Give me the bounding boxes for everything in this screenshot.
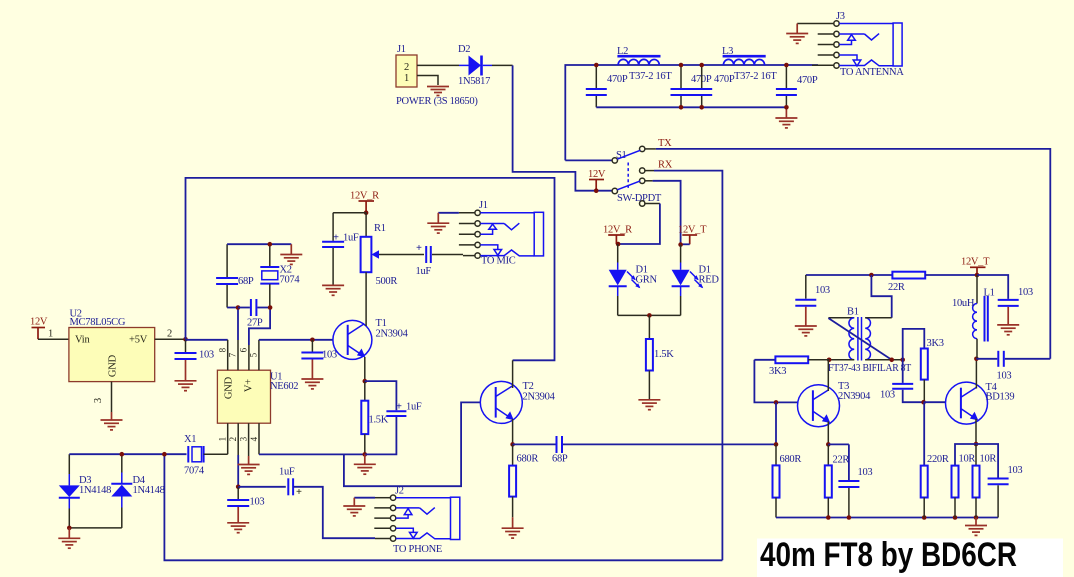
transistor T4 BD139 bbox=[946, 382, 1015, 424]
transistor T2 2N3904 bbox=[480, 381, 555, 423]
led D1 RED bbox=[672, 245, 720, 316]
U1 pin 6 bbox=[248, 345, 250, 370]
wire 12V route down to switch bbox=[513, 65, 612, 190]
wire 12V_T to decoupling cap bbox=[977, 275, 1008, 299]
svg-text:+: + bbox=[416, 243, 422, 254]
svg-text:12V_R: 12V_R bbox=[350, 191, 379, 202]
svg-text:TO MIC: TO MIC bbox=[481, 256, 516, 267]
capacitor 103 at pin2 bbox=[227, 487, 264, 523]
capacitor 103 output series bbox=[976, 351, 1050, 382]
wire mic pin1 to ground bbox=[438, 212, 459, 214]
diode D3 1N4148 bbox=[59, 454, 111, 528]
svg-text:103: 103 bbox=[880, 390, 895, 401]
svg-text:68P: 68P bbox=[238, 276, 254, 287]
resistor 3K3 (T3 bias) bbox=[754, 356, 829, 377]
power port 12V_T at L1 bbox=[961, 257, 990, 276]
resistor 10R #1 bbox=[952, 444, 977, 518]
wire pin4 to emitter node bbox=[259, 453, 365, 455]
U1 pin 8 bbox=[227, 340, 229, 370]
svg-text:1N5817: 1N5817 bbox=[458, 76, 490, 87]
diode D2 1N5817 bbox=[458, 44, 490, 87]
wire J1 pin1 to ground bbox=[417, 76, 438, 86]
svg-text:7074: 7074 bbox=[280, 275, 301, 286]
ground at J3 bbox=[786, 34, 808, 44]
svg-text:J2: J2 bbox=[395, 486, 404, 497]
connector J2 (TO PHONE) bbox=[374, 486, 460, 556]
ground 103 T3 supply bbox=[795, 326, 817, 336]
svg-text:2: 2 bbox=[167, 329, 172, 340]
power port 12V at U2 bbox=[30, 317, 48, 340]
U1 pin 5 bbox=[258, 340, 260, 370]
svg-text:470P: 470P bbox=[714, 74, 735, 85]
svg-text:6: 6 bbox=[239, 347, 249, 352]
ground J2 bbox=[343, 506, 365, 516]
wire 3K3 to T3 base bbox=[754, 360, 797, 403]
resistor 22R (T3 emitter) bbox=[825, 444, 850, 517]
svg-text:680R: 680R bbox=[780, 454, 802, 465]
capacitor 1uF (T1 emitter) bbox=[365, 381, 422, 454]
svg-text:1uF: 1uF bbox=[343, 233, 359, 244]
inductor L2 bbox=[617, 56, 660, 65]
wire T2 emitter down bbox=[512, 419, 514, 444]
power port 12V at switch bbox=[588, 169, 606, 191]
svg-text:12V_T: 12V_T bbox=[678, 225, 707, 236]
connector J3 (TO ANTENNA) bbox=[797, 11, 904, 78]
capacitor 103 at U2 output bbox=[175, 339, 214, 380]
resistor 10R #2 bbox=[973, 444, 997, 518]
svg-text:10uH: 10uH bbox=[952, 298, 975, 309]
svg-text:3: 3 bbox=[93, 398, 104, 403]
svg-text:+: + bbox=[396, 402, 402, 413]
capacitor 470P #3 bbox=[691, 65, 712, 107]
svg-text:68P: 68P bbox=[552, 454, 568, 465]
wire T3 collector to B1 bbox=[827, 360, 829, 391]
svg-text:3: 3 bbox=[238, 436, 248, 441]
svg-text:+: + bbox=[296, 487, 302, 498]
wire 68P/X2 top rail to ground bbox=[227, 243, 291, 245]
transistor T3 2N3904 bbox=[798, 381, 872, 427]
svg-text:GND: GND bbox=[224, 376, 235, 399]
wire D2 to corner bbox=[483, 64, 492, 66]
wire bottom long rail bbox=[164, 454, 722, 560]
wire 220R feed bbox=[923, 402, 925, 465]
wire J2 pin1 to ground bbox=[354, 497, 375, 499]
wire base feed from 68P node bbox=[775, 402, 777, 444]
svg-text:R1: R1 bbox=[374, 223, 386, 234]
wire T4 emitter bbox=[975, 419, 977, 444]
svg-text:12V: 12V bbox=[588, 169, 606, 180]
svg-text:103: 103 bbox=[322, 350, 337, 361]
title white box bbox=[757, 539, 1063, 577]
capacitor 103 (12V_T decoupling) bbox=[998, 287, 1033, 324]
inductor L3 bbox=[723, 56, 766, 65]
wire 12V_T supply rail bbox=[806, 274, 893, 276]
svg-text:FT37-43 BIFILAR 8T: FT37-43 BIFILAR 8T bbox=[828, 363, 912, 374]
resistor 1.5K (led) bbox=[646, 315, 674, 399]
U1 pin 7 bbox=[237, 340, 239, 370]
svg-text:12V_R: 12V_R bbox=[603, 225, 632, 236]
svg-text:5: 5 bbox=[249, 352, 259, 357]
junction dots filter bbox=[594, 63, 599, 68]
capacitor 103 (B1 output) bbox=[880, 360, 924, 402]
junction 12V/switch bbox=[594, 188, 599, 193]
U1 pin 4 bbox=[258, 423, 260, 454]
diode D4 1N4148 bbox=[111, 454, 164, 528]
svg-text:T1: T1 bbox=[376, 318, 387, 329]
svg-text:1uF: 1uF bbox=[416, 266, 432, 277]
wire bottom rail right bbox=[776, 517, 998, 519]
wire led cathode rail bbox=[618, 314, 681, 316]
crystal X2 7074 bbox=[260, 244, 300, 307]
svg-text:POWER (3S 18650): POWER (3S 18650) bbox=[396, 96, 478, 107]
svg-text:GND: GND bbox=[108, 354, 119, 377]
svg-text:T2: T2 bbox=[523, 381, 534, 392]
svg-text:3K3: 3K3 bbox=[927, 338, 944, 349]
ground 103 12V_T bbox=[997, 325, 1019, 335]
svg-text:MC78L05CG: MC78L05CG bbox=[70, 317, 126, 328]
svg-text:T37-2 16T: T37-2 16T bbox=[734, 71, 777, 82]
wire antenna top rail bbox=[565, 65, 818, 160]
capacitor 68P output bbox=[513, 436, 776, 465]
svg-text:7074: 7074 bbox=[184, 466, 205, 477]
wire filter bottom rail bbox=[596, 106, 786, 108]
crystal X1 7074 bbox=[184, 434, 228, 477]
svg-text:4: 4 bbox=[249, 436, 259, 441]
inductor L1 10uH bbox=[952, 275, 995, 359]
svg-text:GRN: GRN bbox=[636, 275, 658, 286]
ground 1uF 12V_R bbox=[322, 285, 344, 295]
svg-text:220R: 220R bbox=[927, 454, 949, 465]
wire RX down to bottom rail bbox=[654, 171, 722, 561]
capacitor 1uF at 12V_R bbox=[322, 213, 366, 285]
capacitor 470P #4 bbox=[776, 65, 797, 107]
svg-text:12V: 12V bbox=[30, 317, 48, 328]
wire 68P bottom to pin7 node bbox=[227, 307, 238, 309]
svg-text:BD139: BD139 bbox=[986, 392, 1015, 403]
svg-text:+: + bbox=[333, 233, 339, 244]
svg-text:2: 2 bbox=[228, 437, 238, 441]
svg-text:103: 103 bbox=[858, 467, 873, 478]
wire T2 base path bbox=[344, 402, 480, 486]
ground D3/D4 bbox=[58, 528, 80, 548]
ground U2 pin3 bbox=[101, 420, 123, 430]
transistor T1 2N3904 bbox=[333, 318, 409, 359]
svg-text:V+: V+ bbox=[244, 379, 255, 392]
wire T3 emitter bbox=[827, 422, 829, 445]
wire T4 base bbox=[924, 401, 946, 403]
connector J1 (POWER) bbox=[396, 44, 478, 107]
power port 12V_T at leds bbox=[678, 225, 707, 245]
svg-text:8: 8 bbox=[218, 347, 228, 352]
ground mic bbox=[427, 223, 449, 233]
svg-text:1uF: 1uF bbox=[406, 402, 422, 413]
svg-text:L1: L1 bbox=[984, 288, 995, 299]
wire 1uF to J2 pin5 bbox=[293, 487, 375, 538]
svg-text:TO PHONE: TO PHONE bbox=[393, 544, 442, 555]
capacitor 470P #1 bbox=[586, 65, 607, 107]
wire U2 pin3 to ground bbox=[111, 382, 113, 412]
svg-text:103: 103 bbox=[199, 350, 214, 361]
svg-text:X1: X1 bbox=[184, 434, 196, 445]
svg-text:22R: 22R bbox=[888, 282, 905, 293]
svg-text:500R: 500R bbox=[376, 276, 398, 287]
svg-text:2N3904: 2N3904 bbox=[523, 392, 556, 403]
wire D3/D4 top rail bbox=[69, 453, 186, 455]
svg-text:RX: RX bbox=[658, 160, 673, 171]
capacitor 103 (T3 emitter) bbox=[828, 444, 872, 517]
svg-text:B1: B1 bbox=[847, 307, 859, 318]
svg-text:27P: 27P bbox=[247, 318, 263, 329]
svg-text:1.5K: 1.5K bbox=[654, 349, 674, 360]
svg-text:1N4148: 1N4148 bbox=[133, 485, 165, 496]
ground filter bbox=[775, 107, 797, 128]
wire J1 pin2 to D2 bbox=[417, 64, 459, 66]
capacitor 103 at pin5 bbox=[301, 340, 337, 379]
resistor 22R (supply) bbox=[888, 272, 977, 293]
wire switch contact3 to 12V_T node bbox=[645, 180, 653, 182]
ground 103 U2 bbox=[175, 381, 197, 391]
regulator U2 MC78L05CG bbox=[69, 309, 155, 382]
svg-text:40m FT8 by BD6CR: 40m FT8 by BD6CR bbox=[760, 536, 1017, 574]
svg-text:L2: L2 bbox=[617, 46, 628, 57]
svg-text:1: 1 bbox=[218, 437, 228, 441]
svg-text:T37-2 16T: T37-2 16T bbox=[629, 71, 672, 82]
capacitor 1uF mic coupling bbox=[416, 243, 464, 277]
ground output rail bbox=[965, 518, 987, 536]
ground 680R T2 bbox=[502, 517, 524, 538]
power port 12V_R at leds bbox=[603, 225, 632, 245]
wire switch contact4 to 12V_R node bbox=[645, 203, 660, 205]
wire D3/D4 bottom bbox=[69, 527, 122, 529]
svg-text:22R: 22R bbox=[833, 455, 850, 466]
wire filter to switch common bbox=[565, 159, 612, 161]
svg-text:RED: RED bbox=[699, 275, 720, 286]
capacitor 1uF coupling (pin2) bbox=[238, 467, 302, 499]
ground led resistor bbox=[638, 400, 660, 410]
svg-text:10R: 10R bbox=[959, 454, 976, 465]
ground 103 pin2 bbox=[227, 523, 249, 533]
svg-text:10R: 10R bbox=[980, 454, 997, 465]
svg-text:L3: L3 bbox=[722, 46, 733, 57]
svg-text:103: 103 bbox=[1018, 287, 1033, 298]
svg-text:1: 1 bbox=[404, 73, 409, 84]
svg-text:1N4148: 1N4148 bbox=[79, 485, 111, 496]
svg-text:2: 2 bbox=[404, 62, 409, 73]
wire 12V to U2 pin1 bbox=[38, 338, 69, 340]
wire R1 bottom to T1 collector bbox=[365, 272, 367, 326]
U1 pin 1 to X1 bbox=[227, 423, 229, 454]
svg-text:1: 1 bbox=[48, 329, 53, 340]
svg-text:+5V: +5V bbox=[129, 335, 148, 346]
svg-text:470P: 470P bbox=[797, 75, 818, 86]
svg-text:D2: D2 bbox=[458, 44, 470, 55]
svg-text:12V_T: 12V_T bbox=[961, 257, 990, 268]
wire T4 collector bbox=[975, 359, 977, 389]
svg-text:TX: TX bbox=[658, 138, 672, 149]
resistor 3K3 (T4 bias) bbox=[921, 338, 944, 402]
resistor 680R (T3 bias) bbox=[773, 444, 802, 517]
svg-text:2N3904: 2N3904 bbox=[838, 391, 871, 402]
wire U2 pin2 bbox=[155, 338, 186, 340]
wire +5V to U1 pin8 bbox=[186, 339, 228, 341]
capacitor 470P #2 bbox=[671, 65, 692, 107]
resistor 1.5K (T1) bbox=[361, 381, 388, 454]
wire T1 emitter down bbox=[364, 357, 366, 381]
svg-text:1uF: 1uF bbox=[279, 467, 295, 478]
svg-text:1.5K: 1.5K bbox=[369, 415, 389, 426]
wire J3 pin1 ground drop bbox=[796, 24, 798, 34]
wire B1 to 3K3 (T4 bias) bbox=[903, 329, 925, 360]
svg-text:103: 103 bbox=[997, 371, 1012, 382]
ground T1 emitter node bbox=[354, 454, 376, 474]
capacitor 68P (top left) bbox=[216, 244, 254, 307]
svg-text:103: 103 bbox=[250, 497, 265, 508]
svg-text:3K3: 3K3 bbox=[769, 366, 786, 377]
wire pin5 to T1 base bbox=[259, 339, 333, 341]
svg-text:103: 103 bbox=[1008, 465, 1023, 476]
U1 pin 3 to ground bbox=[248, 423, 250, 456]
ground X2 top bbox=[280, 255, 302, 265]
wire TX to output cap bbox=[656, 149, 1050, 359]
wire TX stub bbox=[645, 148, 656, 150]
wire T2 collector to +5V rail bbox=[512, 360, 514, 388]
svg-text:J1: J1 bbox=[397, 44, 406, 55]
wire +5V rail big loop bbox=[186, 178, 555, 360]
svg-text:Vin: Vin bbox=[75, 335, 90, 346]
connector J1 (TO MIC) bbox=[459, 200, 544, 267]
capacitor 103 (T3 supply) bbox=[795, 275, 830, 326]
wire B1 feed jog bbox=[871, 275, 891, 318]
ground U1 pin3 bbox=[238, 465, 260, 475]
svg-text:2N3904: 2N3904 bbox=[376, 329, 409, 340]
transformer B1 FT37-43 BIFILAR 8T bbox=[828, 307, 912, 375]
potentiometer R1 500R bbox=[361, 213, 424, 287]
resistor 680R (T2) bbox=[509, 444, 538, 517]
resistor 220R bbox=[921, 454, 949, 518]
svg-text:680R: 680R bbox=[517, 454, 539, 465]
svg-text:NE602: NE602 bbox=[270, 381, 298, 392]
svg-text:J1: J1 bbox=[479, 200, 488, 211]
ic U1 NE602 bbox=[217, 370, 298, 423]
svg-text:470P: 470P bbox=[607, 74, 628, 85]
svg-text:103: 103 bbox=[815, 285, 830, 296]
U1 pin 2 bbox=[237, 423, 239, 455]
switch S1 SW-DPDT bbox=[612, 146, 662, 206]
power port 12V_R at R1 bbox=[350, 191, 379, 213]
wire RX stub bbox=[645, 170, 654, 172]
capacitor 103 (T4 emitter) bbox=[976, 444, 1022, 518]
led D1 GRN bbox=[609, 244, 658, 315]
svg-text:TO ANTENNA: TO ANTENNA bbox=[840, 67, 904, 78]
capacitor 27P bbox=[238, 299, 270, 329]
ground 103 pin5 bbox=[301, 379, 323, 389]
ground at J1 bbox=[427, 87, 449, 96]
svg-text:7: 7 bbox=[228, 352, 238, 357]
